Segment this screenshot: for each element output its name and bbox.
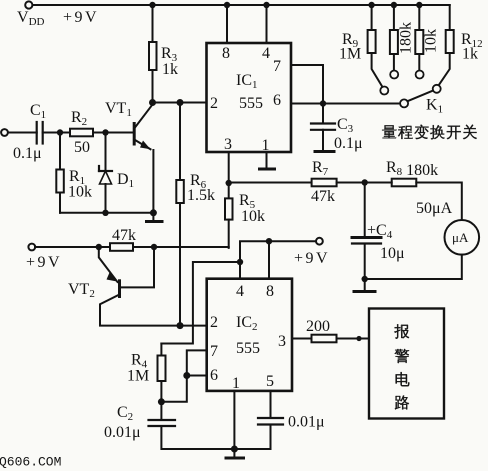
svg-text:10k: 10k (68, 184, 92, 201)
node IC2 pin2 / R6 / VT2 collector (177, 322, 184, 329)
svg-text:7: 7 (210, 343, 218, 360)
node pin3/R5/R7 (226, 180, 232, 186)
wire pin3 IC1 down (228, 152, 230, 183)
label range switch 量程变换开关 (382, 125, 396, 138)
svg-text:5: 5 (266, 373, 274, 390)
op IC2 555 box (207, 279, 292, 391)
wire pin4 IC1 (266, 5, 268, 43)
capacitor C2 (160, 402, 162, 419)
node pin6 junction (183, 372, 190, 379)
ground IC2 (233, 449, 235, 457)
resistor 47k (110, 243, 133, 251)
node VT1 collector / R3 / pin2 (149, 99, 156, 106)
svg-text:180k: 180k (398, 22, 415, 54)
svg-text:7: 7 (273, 58, 281, 75)
svg-text:Q606.COM: Q606.COM (0, 455, 61, 470)
node pin4 IC2 / R4 feed (237, 259, 243, 265)
switch bank: 180k resistor (393, 5, 395, 30)
svg-text:0.01μ: 0.01μ (104, 424, 141, 441)
svg-text:μA: μA (452, 230, 469, 245)
capacitor 0.01u pin5 (270, 391, 272, 417)
resistor R2 (70, 129, 93, 137)
svg-text:6: 6 (210, 367, 218, 384)
svg-text:1M: 1M (127, 368, 149, 385)
svg-text:VDD: VDD (17, 9, 45, 28)
resistor R1 (59, 133, 61, 170)
svg-text:4: 4 (262, 45, 270, 62)
switch bank: R9 (371, 5, 373, 30)
svg-text:8: 8 (222, 45, 230, 62)
node R7/R8/C4 (362, 179, 368, 185)
svg-text:D1: D1 (117, 171, 134, 190)
ground pin1 IC1 (260, 168, 275, 171)
alarm circuit box (369, 309, 444, 419)
svg-text:4: 4 (236, 283, 244, 300)
node top rail to 10k (416, 2, 422, 8)
svg-text:1M: 1M (339, 46, 361, 63)
node top rail to pin8 IC1 (224, 2, 230, 8)
svg-text:+C4: +C4 (367, 222, 393, 241)
resistor R6 (179, 103, 181, 181)
resistor R5 (228, 183, 230, 198)
svg-text:+9V: +9V (26, 254, 62, 271)
svg-text:2: 2 (210, 95, 218, 112)
op IC1 555 box (207, 43, 292, 152)
wire +9V to R4 (161, 262, 240, 344)
node top rail to R3 (149, 2, 155, 8)
svg-text:2: 2 (210, 314, 218, 331)
node top rail to 180k (391, 2, 397, 8)
svg-text:200: 200 (306, 318, 330, 335)
svg-text:K1: K1 (426, 97, 443, 116)
svg-text:+9V: +9V (63, 9, 99, 26)
svg-text:C1: C1 (30, 102, 46, 121)
svg-text:1k: 1k (162, 61, 178, 78)
resistor R4 (160, 344, 162, 356)
wire pins 6,7 IC2 to R4/C2 (161, 350, 206, 401)
svg-text:1: 1 (232, 375, 240, 392)
resistor R7 (312, 179, 337, 187)
node pin1 ground (231, 446, 238, 453)
svg-text:3: 3 (278, 333, 286, 350)
node 47k right / VT2 base / R5 (151, 244, 157, 250)
node VT1 emitter/ground (150, 209, 157, 216)
wire pin7 IC1 to pin6 node (291, 65, 323, 104)
wire R12 top drop (449, 5, 451, 30)
node pin6/pin7/C3 (320, 100, 326, 106)
node 47k left / VT2 emitter (96, 244, 102, 250)
svg-text:0.1μ: 0.1μ (334, 135, 363, 152)
terminal VDD (25, 1, 32, 8)
svg-text:R8 180k: R8 180k (386, 159, 438, 179)
resistor R8 (392, 179, 417, 187)
node C1/R2/R1 (57, 129, 63, 135)
wire pin2 line (153, 102, 207, 104)
switch bank: 10k resistor (418, 5, 420, 30)
svg-text:R2: R2 (71, 109, 87, 128)
svg-text:1.5k: 1.5k (187, 187, 215, 204)
node before alarm box (356, 336, 361, 341)
ground C3 (315, 150, 334, 153)
svg-text:6: 6 (273, 92, 281, 109)
terminal +9V right (316, 238, 323, 245)
svg-text:R7: R7 (312, 159, 329, 178)
svg-text:3: 3 (224, 136, 232, 153)
svg-text:47k: 47k (112, 227, 136, 244)
capacitor C1 (36, 122, 38, 144)
wire pin1 IC1 to ground (266, 152, 268, 168)
diode D1 zener (105, 133, 107, 171)
resistor R3 (152, 5, 154, 42)
svg-text:8: 8 (266, 283, 274, 300)
node D1/ground rail (102, 210, 108, 216)
wire pin3 node to R7 (229, 182, 312, 184)
svg-text:10k: 10k (423, 29, 440, 53)
node top rail to R9 (368, 2, 374, 8)
wire VT1 ground rail (60, 212, 153, 214)
wire top +9V rail (33, 4, 450, 6)
svg-text:10μ: 10μ (380, 245, 405, 262)
svg-text:50μA: 50μA (416, 200, 453, 217)
capacitor C4 electrolytic (364, 183, 366, 237)
svg-text:0.1μ: 0.1μ (13, 145, 42, 162)
node R4/C2/pin6-7 (158, 398, 165, 405)
svg-text:VT1: VT1 (105, 100, 132, 119)
node top rail to pin4 IC1 (263, 2, 269, 8)
svg-text:C2: C2 (117, 404, 133, 423)
wire pin6 IC1 to switch wiper (291, 103, 401, 105)
node pin8 IC2 (266, 238, 272, 244)
ground VT1 (152, 213, 154, 220)
terminal +9V left (28, 244, 35, 251)
svg-text:10k: 10k (241, 208, 265, 225)
switch K1 wiper (400, 99, 408, 107)
node C4/meter/ground (362, 276, 368, 282)
svg-text:0.01μ: 0.01μ (288, 414, 325, 431)
svg-text:50: 50 (74, 139, 90, 156)
input terminal (1, 129, 8, 136)
svg-text:555: 555 (239, 95, 263, 112)
svg-text:1k: 1k (462, 46, 478, 63)
svg-text:C3: C3 (337, 116, 354, 135)
meter uA (445, 220, 480, 255)
wire pin1 IC2 to ground (233, 391, 235, 449)
node R6 top (177, 99, 184, 106)
label alarm circuit 报警电路 (394, 324, 409, 338)
resistor R12 (446, 30, 454, 53)
ground meter/C4 (364, 279, 366, 290)
svg-text:+9V: +9V (294, 250, 330, 267)
svg-text:VT2: VT2 (68, 281, 95, 300)
resistor 200 output (292, 338, 312, 340)
svg-text:555: 555 (236, 340, 260, 357)
node R2/D1/VT1 base (102, 129, 108, 135)
wire pin8 IC1 (226, 5, 228, 43)
capacitor C3 (322, 104, 324, 122)
svg-text:47k: 47k (311, 188, 335, 205)
